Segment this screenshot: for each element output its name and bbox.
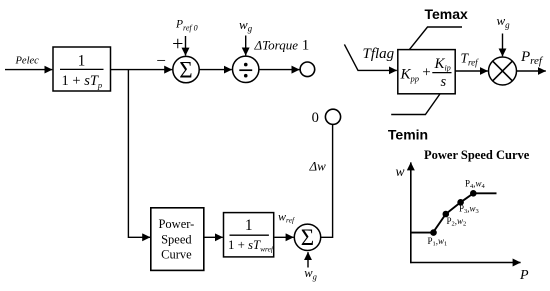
svg-text:s: s	[441, 74, 447, 90]
svg-text:Pref: Pref	[520, 49, 544, 67]
svg-text:0: 0	[312, 110, 319, 126]
svg-text:P2,w2: P2,w2	[447, 216, 467, 228]
svg-text:Power-: Power-	[158, 217, 194, 231]
svg-text:Temax: Temax	[425, 6, 469, 22]
svg-text:Kpp: Kpp	[400, 67, 420, 84]
svg-text:Pref 0: Pref 0	[175, 19, 198, 33]
svg-text:1 + sTp: 1 + sTp	[62, 73, 103, 90]
svg-text:P3,w3: P3,w3	[459, 203, 479, 215]
svg-text:Tref: Tref	[461, 51, 480, 68]
svg-text:Δw: Δw	[309, 158, 327, 173]
svg-text:P1,w1: P1,w1	[428, 236, 448, 248]
svg-text:Kip: Kip	[434, 56, 451, 73]
svg-text:ΔTorque 1: ΔTorque 1	[254, 38, 310, 54]
svg-text:Speed: Speed	[161, 232, 192, 246]
svg-text:Power Speed Curve: Power Speed Curve	[424, 148, 530, 162]
svg-text:1: 1	[245, 217, 253, 234]
svg-text:Curve: Curve	[161, 247, 192, 261]
svg-text:w: w	[396, 164, 405, 179]
svg-text:Σ: Σ	[301, 225, 314, 250]
svg-text:P4,w4: P4,w4	[465, 178, 486, 190]
svg-text:+: +	[422, 65, 430, 81]
svg-text:Pelec: Pelec	[15, 55, 40, 66]
svg-text:1: 1	[78, 52, 86, 69]
svg-text:wg: wg	[497, 13, 511, 30]
svg-text:wg: wg	[239, 17, 253, 34]
svg-text:Temin: Temin	[388, 126, 428, 142]
svg-text:P: P	[519, 268, 529, 283]
svg-text:1 + sTwref: 1 + sTwref	[228, 238, 274, 254]
svg-text:wg: wg	[304, 266, 317, 282]
svg-text:−: −	[156, 51, 166, 70]
svg-text:Σ: Σ	[179, 57, 192, 82]
svg-text:wref: wref	[278, 210, 295, 225]
svg-text:Tflag: Tflag	[363, 46, 395, 62]
svg-text:+: +	[172, 33, 183, 55]
